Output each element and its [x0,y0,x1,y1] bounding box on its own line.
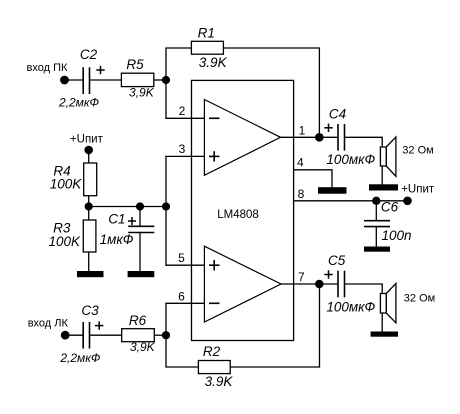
svg-text:8: 8 [298,187,305,201]
svg-text:3.9K: 3.9K [199,55,228,70]
svg-text:3: 3 [179,142,186,156]
svg-text:+Uпит: +Uпит [70,133,104,145]
svg-text:вход ПК: вход ПК [27,62,68,74]
svg-text:C4: C4 [329,107,346,122]
svg-text:2,2мкФ: 2,2мкФ [58,96,100,110]
svg-text:R1: R1 [198,26,215,41]
svg-text:100n: 100n [381,228,411,243]
svg-text:7: 7 [298,270,305,284]
svg-text:3,9K: 3,9K [129,86,155,100]
svg-text:32 Ом: 32 Ом [404,293,435,305]
svg-text:100K: 100K [50,177,83,192]
svg-text:5: 5 [178,251,185,265]
svg-text:100мкФ: 100мкФ [326,152,375,167]
svg-text:2: 2 [179,104,186,118]
svg-text:вход ЛК: вход ЛК [28,318,69,330]
svg-text:32 Ом: 32 Ом [402,145,433,157]
svg-text:3.9K: 3.9K [205,374,234,389]
svg-text:C2: C2 [80,47,98,62]
svg-text:R6: R6 [129,313,147,328]
svg-text:4: 4 [297,155,304,169]
svg-text:LM4808: LM4808 [217,209,259,221]
svg-text:1: 1 [299,124,306,138]
svg-text:C6: C6 [381,200,399,215]
svg-text:1мкФ: 1мкФ [100,232,134,247]
svg-text:3,9K: 3,9K [130,340,156,354]
svg-text:+Uпит: +Uпит [401,184,435,196]
svg-text:C3: C3 [81,303,99,318]
svg-text:2,2мкФ: 2,2мкФ [59,351,101,365]
svg-text:100мкФ: 100мкФ [326,300,375,315]
svg-text:R5: R5 [126,57,144,72]
svg-text:6: 6 [178,289,185,303]
svg-text:C5: C5 [328,253,346,268]
svg-text:C1: C1 [108,212,125,227]
svg-text:R2: R2 [203,344,221,359]
svg-text:100K: 100K [49,234,82,249]
